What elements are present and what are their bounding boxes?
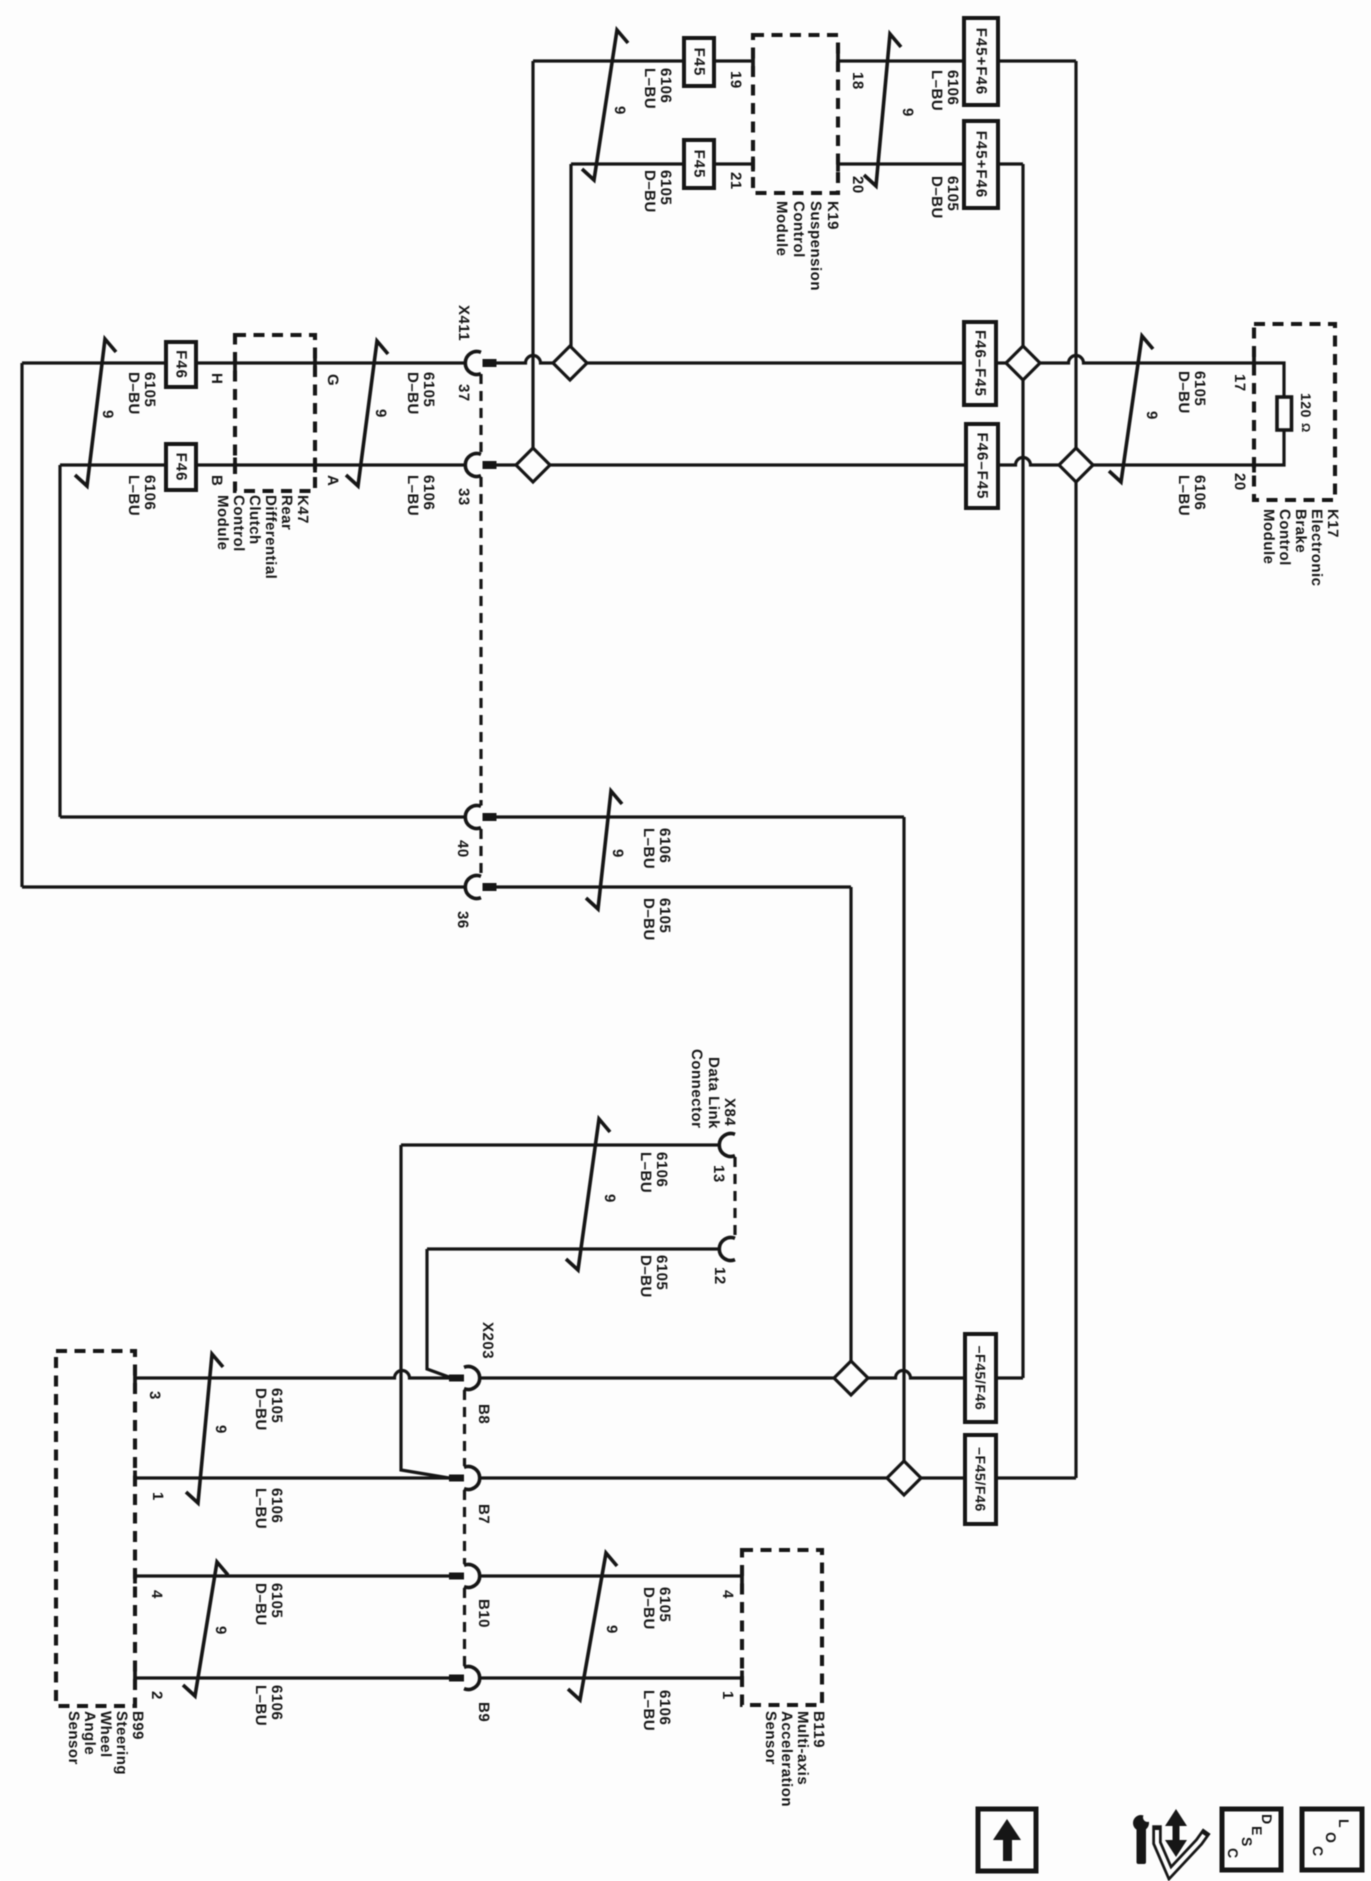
wire 6106 L-BU: B99 pin 2 to X203 B9: [135, 1676, 449, 1679]
wire vertical L-BU from X411-40 corner down to splice on B7: [902, 817, 905, 1478]
svg-text:Module: Module: [214, 495, 231, 551]
svg-text:6105: 6105: [268, 1583, 285, 1618]
wire 6106 L-BU: X411-40 left segment: [60, 815, 466, 818]
svg-text:17: 17: [1231, 374, 1248, 392]
fuse tag -F45/F46 on B7 wire: [965, 1435, 996, 1524]
splice diamond L-BU bus with pin 18 riser: [1059, 448, 1093, 482]
svg-text:1: 1: [719, 1691, 736, 1700]
K17 pin 17: [1252, 356, 1256, 371]
twisted pair slash, B99 4/2 pair: [183, 1562, 228, 1696]
wire vertical D-BU from K47 H corner down to X411-36: [20, 363, 23, 887]
X411 pin 36: [465, 876, 481, 899]
svg-text:D–BU: D–BU: [125, 372, 142, 415]
svg-text:2: 2: [148, 1691, 165, 1700]
K47 pin B: [233, 458, 237, 473]
svg-text:6105: 6105: [944, 176, 961, 211]
wire vertical D-BU from X84-12 down joining X203 B8: [427, 1249, 449, 1377]
splice diamond B8 net with X411-36 riser: [834, 1361, 868, 1395]
X203 pin B9: [464, 1667, 480, 1690]
svg-text:S: S: [1239, 1837, 1255, 1846]
svg-text:D–BU: D–BU: [252, 1388, 269, 1431]
svg-text:X411: X411: [455, 305, 472, 341]
svg-text:18: 18: [849, 72, 866, 90]
fuse tag F45 on pin 21 wire: [684, 140, 714, 188]
svg-text:6106: 6106: [653, 1152, 670, 1187]
svg-text:B: B: [208, 475, 225, 486]
X84 pin 13: [719, 1134, 735, 1157]
B99 pin 4: [133, 1569, 137, 1584]
svg-text:6105: 6105: [657, 170, 674, 205]
K47 pin G: [313, 356, 317, 371]
icon DESC box: [1222, 1809, 1281, 1870]
svg-text:L–BU: L–BU: [641, 68, 658, 109]
svg-text:L–BU: L–BU: [125, 475, 142, 516]
connector X84 Data Link Connector: [733, 1157, 736, 1237]
svg-text:C: C: [1310, 1846, 1326, 1856]
svg-text:Differential: Differential: [262, 495, 279, 579]
module K17 Electronic Brake Control Module: [1254, 324, 1335, 500]
splice diamond B7 net with X411-40 riser: [887, 1461, 921, 1495]
fuse tag F46 on pin H wire: [166, 342, 196, 387]
svg-text:–F45/F46: –F45/F46: [973, 1346, 989, 1411]
svg-text:F46–F45: F46–F45: [974, 432, 991, 499]
svg-text:120: 120: [1298, 393, 1314, 418]
svg-text:6106: 6106: [420, 475, 437, 510]
svg-text:Multi-axis: Multi-axis: [794, 1711, 811, 1785]
svg-text:Brake: Brake: [1292, 509, 1309, 553]
icon hyperlink up-arrow box: [978, 1809, 1036, 1871]
svg-text:L–BU: L–BU: [1175, 475, 1192, 516]
svg-text:L–BU: L–BU: [637, 1152, 654, 1193]
svg-text:Module: Module: [1260, 509, 1277, 565]
svg-text:L–BU: L–BU: [404, 475, 421, 516]
connector X411 inline connector: [479, 374, 482, 454]
svg-text:9: 9: [212, 1626, 229, 1635]
svg-text:Steering: Steering: [113, 1711, 130, 1775]
wire 6105 D-BU bus: K47 pin G to X411-37 to K17 pin 17: [22, 361, 466, 364]
fuse tag F46-F45 on L-BU bus: [966, 424, 998, 508]
svg-text:E: E: [1249, 1826, 1265, 1835]
svg-text:Control: Control: [230, 495, 247, 552]
svg-text:Suspension: Suspension: [807, 201, 824, 291]
svg-text:H: H: [208, 373, 225, 384]
wire 6106 L-BU: X203 B9 to B119 pin 1: [480, 1676, 742, 1679]
wire 6105 D-BU: K19 pin 21 stub: [571, 162, 753, 165]
svg-text:Ω: Ω: [1299, 423, 1311, 432]
fuse tag F45+F46 on pin 18 wire: [964, 18, 998, 105]
X203 pin B8: [464, 1367, 480, 1390]
wire 6105 D-BU: X203 B10 to B119 pin 4: [480, 1574, 742, 1577]
svg-text:9: 9: [1143, 411, 1160, 420]
svg-text:12: 12: [711, 1267, 728, 1285]
wire 6105 D-BU: B99 pin 4 to X203 B10: [135, 1574, 449, 1577]
svg-text:6106: 6106: [141, 475, 158, 510]
wire 6106 L-BU: B99 pin 1 to X203 B7: [135, 1476, 449, 1479]
fuse tag F45+F46 on pin 20 wire: [964, 121, 998, 208]
svg-text:F45: F45: [691, 48, 708, 77]
svg-text:K19: K19: [824, 201, 841, 230]
svg-text:20: 20: [849, 176, 866, 194]
connector X203 inline connector: [463, 1390, 466, 1466]
svg-text:K17: K17: [1324, 509, 1341, 538]
svg-text:9: 9: [372, 409, 389, 418]
svg-text:F46–F45: F46–F45: [972, 330, 989, 397]
svg-text:6106: 6106: [268, 1685, 285, 1720]
svg-text:B9: B9: [475, 1702, 492, 1722]
wire 6106 L-BU: K19 pin 19 stub: [533, 59, 753, 62]
svg-text:B99: B99: [129, 1711, 146, 1740]
fuse tag F46-F45 on D-BU bus: [964, 322, 996, 405]
svg-text:F45+F46: F45+F46: [973, 131, 990, 198]
splice diamond D-BU bus with pin 21 riser: [553, 346, 587, 380]
svg-text:Data Link: Data Link: [705, 1057, 722, 1129]
svg-text:B10: B10: [475, 1599, 492, 1628]
wire vertical D-BU from X411-36 corner down to splice on B8: [849, 887, 852, 1378]
wire 6106 L-BU: X84 pin 13 horizontal: [401, 1143, 719, 1146]
svg-text:K47: K47: [294, 495, 311, 524]
wire vertical from pin 19 down to splice on L-BU bus: [531, 61, 534, 465]
svg-text:–F45/F46: –F45/F46: [973, 1447, 989, 1512]
splice diamond L-BU bus with pin 19 riser: [516, 448, 550, 482]
svg-text:B119: B119: [810, 1711, 827, 1748]
X203 pin B7: [464, 1467, 480, 1490]
twisted pair slash, K17 pair: [1109, 336, 1153, 482]
svg-text:O: O: [1323, 1832, 1339, 1843]
svg-text:6105: 6105: [420, 372, 437, 407]
B119 pin 4: [740, 1569, 744, 1584]
icon wrench with arrows (repair instructions): [1133, 1809, 1204, 1873]
K17 pin 20: [1252, 458, 1256, 473]
svg-text:L–BU: L–BU: [252, 1488, 269, 1529]
wire 6105 D-BU: K19 pin 20 to corner: [838, 162, 1023, 165]
svg-text:D–BU: D–BU: [640, 898, 657, 941]
svg-text:9: 9: [212, 1425, 229, 1434]
wire 6105 D-BU: B99 pin 3 to X203 B8: [135, 1371, 449, 1379]
wire 6106 L-BU: X411-40 right segment to corner: [496, 815, 904, 818]
wire 6105 D-BU: X203 B8 right segment to riser: [480, 1371, 1023, 1379]
svg-text:6106: 6106: [944, 70, 961, 105]
svg-text:9: 9: [603, 1625, 620, 1634]
svg-text:9: 9: [99, 410, 116, 419]
svg-text:37: 37: [455, 384, 472, 402]
svg-text:Acceleration: Acceleration: [778, 1711, 795, 1807]
module K19 Suspension Control Module: [753, 35, 838, 193]
wire vertical L-BU from X84-13 down joining X203 B7: [401, 1145, 449, 1478]
svg-text:33: 33: [455, 488, 472, 506]
svg-text:L–BU: L–BU: [640, 1690, 657, 1731]
K47 pin H: [233, 356, 237, 371]
svg-text:Wheel: Wheel: [97, 1711, 114, 1758]
svg-text:F46: F46: [173, 453, 190, 482]
svg-text:9: 9: [899, 108, 916, 117]
svg-text:D–BU: D–BU: [404, 372, 421, 415]
svg-text:9: 9: [609, 849, 626, 858]
X203 pin B10: [464, 1565, 480, 1588]
twisted pair slash, K19 left pair: [582, 30, 628, 180]
svg-text:F46: F46: [173, 350, 190, 379]
module B99 Steering Wheel Angle Sensor: [56, 1351, 135, 1706]
X84 pin 12: [719, 1238, 735, 1261]
wire 6105 D-BU: X411-36 left segment: [22, 885, 466, 888]
wire inside K17 from pin 17 to resistor: [1254, 363, 1284, 398]
K19 pin 20: [836, 157, 840, 172]
wire 6105 D-BU: X84 pin 12 horizontal: [427, 1247, 719, 1250]
wire vertical D-BU from pin 20 down to X203 B8 net: [1021, 164, 1024, 1378]
twisted pair slash, K19 right pair: [864, 34, 901, 186]
splice diamond D-BU bus with pin 20 riser: [1006, 346, 1040, 380]
B99 pin 2: [133, 1671, 137, 1686]
wire vertical L-BU from pin 18 down to X203 B7 net: [1074, 61, 1077, 1478]
svg-text:1: 1: [149, 1492, 166, 1501]
svg-text:6105: 6105: [656, 898, 673, 933]
wire 6105 D-BU: X411-36 right segment to corner: [496, 885, 851, 888]
wire 6106 L-BU bus: K47 pin A to X411-33 to K17 pin 20: [60, 463, 466, 466]
svg-text:Clutch: Clutch: [246, 495, 263, 545]
B119 pin 1: [740, 1671, 744, 1686]
svg-text:Module: Module: [773, 201, 790, 257]
svg-text:6106: 6106: [1191, 475, 1208, 510]
svg-text:C: C: [1225, 1848, 1241, 1858]
svg-text:Control: Control: [1276, 509, 1293, 566]
svg-text:B8: B8: [475, 1404, 492, 1424]
svg-text:40: 40: [454, 840, 471, 858]
svg-text:L–BU: L–BU: [640, 828, 657, 869]
B99 pin 1: [133, 1471, 137, 1486]
svg-text:L–BU: L–BU: [928, 70, 945, 111]
svg-text:D–BU: D–BU: [928, 176, 945, 219]
svg-text:Sensor: Sensor: [762, 1711, 779, 1765]
twisted pair slash, K47 right pair: [346, 341, 388, 486]
wire vertical L-BU from K47 B corner down to X411-40: [58, 465, 61, 817]
svg-text:Electronic: Electronic: [1308, 509, 1325, 587]
svg-text:X203: X203: [479, 1322, 496, 1359]
svg-text:6105: 6105: [656, 1587, 673, 1622]
svg-text:Sensor: Sensor: [65, 1711, 82, 1765]
svg-text:Angle: Angle: [81, 1711, 98, 1755]
svg-text:20: 20: [1231, 473, 1248, 491]
X411 pin 33: [465, 454, 481, 477]
svg-text:6106: 6106: [657, 68, 674, 103]
wire 6106 L-BU: X203 B7 right segment to riser: [480, 1476, 1076, 1479]
icon LOC box: [1302, 1809, 1362, 1870]
svg-text:D–BU: D–BU: [1175, 371, 1192, 414]
svg-text:6105: 6105: [1191, 371, 1208, 406]
B99 pin 3: [133, 1371, 137, 1386]
wire 6106 L-BU: K19 pin 18 to corner: [838, 59, 1076, 62]
svg-text:D–BU: D–BU: [640, 1587, 657, 1630]
svg-text:4: 4: [719, 1590, 736, 1599]
svg-text:F45+F46: F45+F46: [973, 28, 990, 95]
svg-text:6106: 6106: [656, 828, 673, 863]
svg-text:3: 3: [146, 1391, 163, 1400]
svg-text:F45: F45: [691, 150, 708, 179]
resistor 120 Ohm terminating resistor inside K17: [1277, 397, 1292, 430]
twisted pair slash, X411 40/36 pair: [586, 791, 622, 909]
svg-text:Control: Control: [790, 201, 807, 258]
K19 pin 21: [751, 157, 755, 172]
twisted pair slash, K47 left pair: [75, 339, 116, 486]
twisted pair slash, B99 3/1 pair: [186, 1354, 223, 1503]
svg-text:6105: 6105: [653, 1255, 670, 1290]
svg-text:36: 36: [454, 911, 471, 929]
svg-text:21: 21: [727, 172, 744, 190]
svg-text:9: 9: [611, 106, 628, 115]
svg-text:D–BU: D–BU: [252, 1583, 269, 1626]
svg-text:G: G: [324, 374, 341, 386]
fuse tag -F45/F46 on B8 wire: [965, 1334, 996, 1422]
X411 pin 37: [465, 352, 481, 375]
twisted pair slash, X84 pair: [566, 1119, 610, 1270]
svg-text:X84: X84: [721, 1098, 738, 1126]
svg-text:B7: B7: [475, 1504, 492, 1524]
fuse tag F45 on pin 19 wire: [684, 38, 714, 86]
X411 pin 40: [465, 806, 481, 829]
svg-text:13: 13: [710, 1165, 727, 1183]
svg-text:D–BU: D–BU: [637, 1255, 654, 1298]
twisted pair slash, B119 pair: [568, 1553, 617, 1700]
K47 pin A: [313, 458, 317, 473]
svg-text:6106: 6106: [656, 1690, 673, 1725]
K19 pin 19: [751, 54, 755, 69]
svg-text:A: A: [324, 475, 341, 486]
svg-text:D–BU: D–BU: [641, 170, 658, 213]
svg-text:Connector: Connector: [688, 1049, 705, 1129]
svg-text:D: D: [1259, 1814, 1275, 1824]
svg-text:19: 19: [727, 71, 744, 89]
svg-text:9: 9: [601, 1194, 618, 1203]
svg-text:L–BU: L–BU: [252, 1685, 269, 1726]
fuse tag F46 on pin B wire: [166, 444, 196, 490]
svg-text:6106: 6106: [268, 1488, 285, 1523]
svg-text:6105: 6105: [268, 1388, 285, 1423]
svg-text:Rear: Rear: [278, 495, 295, 530]
svg-text:4: 4: [148, 1590, 165, 1599]
wire inside K17 from resistor to pin 20: [1254, 429, 1284, 465]
K19 pin 18: [836, 54, 840, 69]
svg-text:L: L: [1336, 1819, 1352, 1828]
module K47 Rear Differential Clutch Control Module: [235, 335, 315, 491]
wire vertical from pin 21 down to splice on D-BU bus: [569, 164, 572, 363]
module B119 Multi-axis Acceleration Sensor: [742, 1550, 822, 1705]
svg-text:6105: 6105: [141, 372, 158, 407]
